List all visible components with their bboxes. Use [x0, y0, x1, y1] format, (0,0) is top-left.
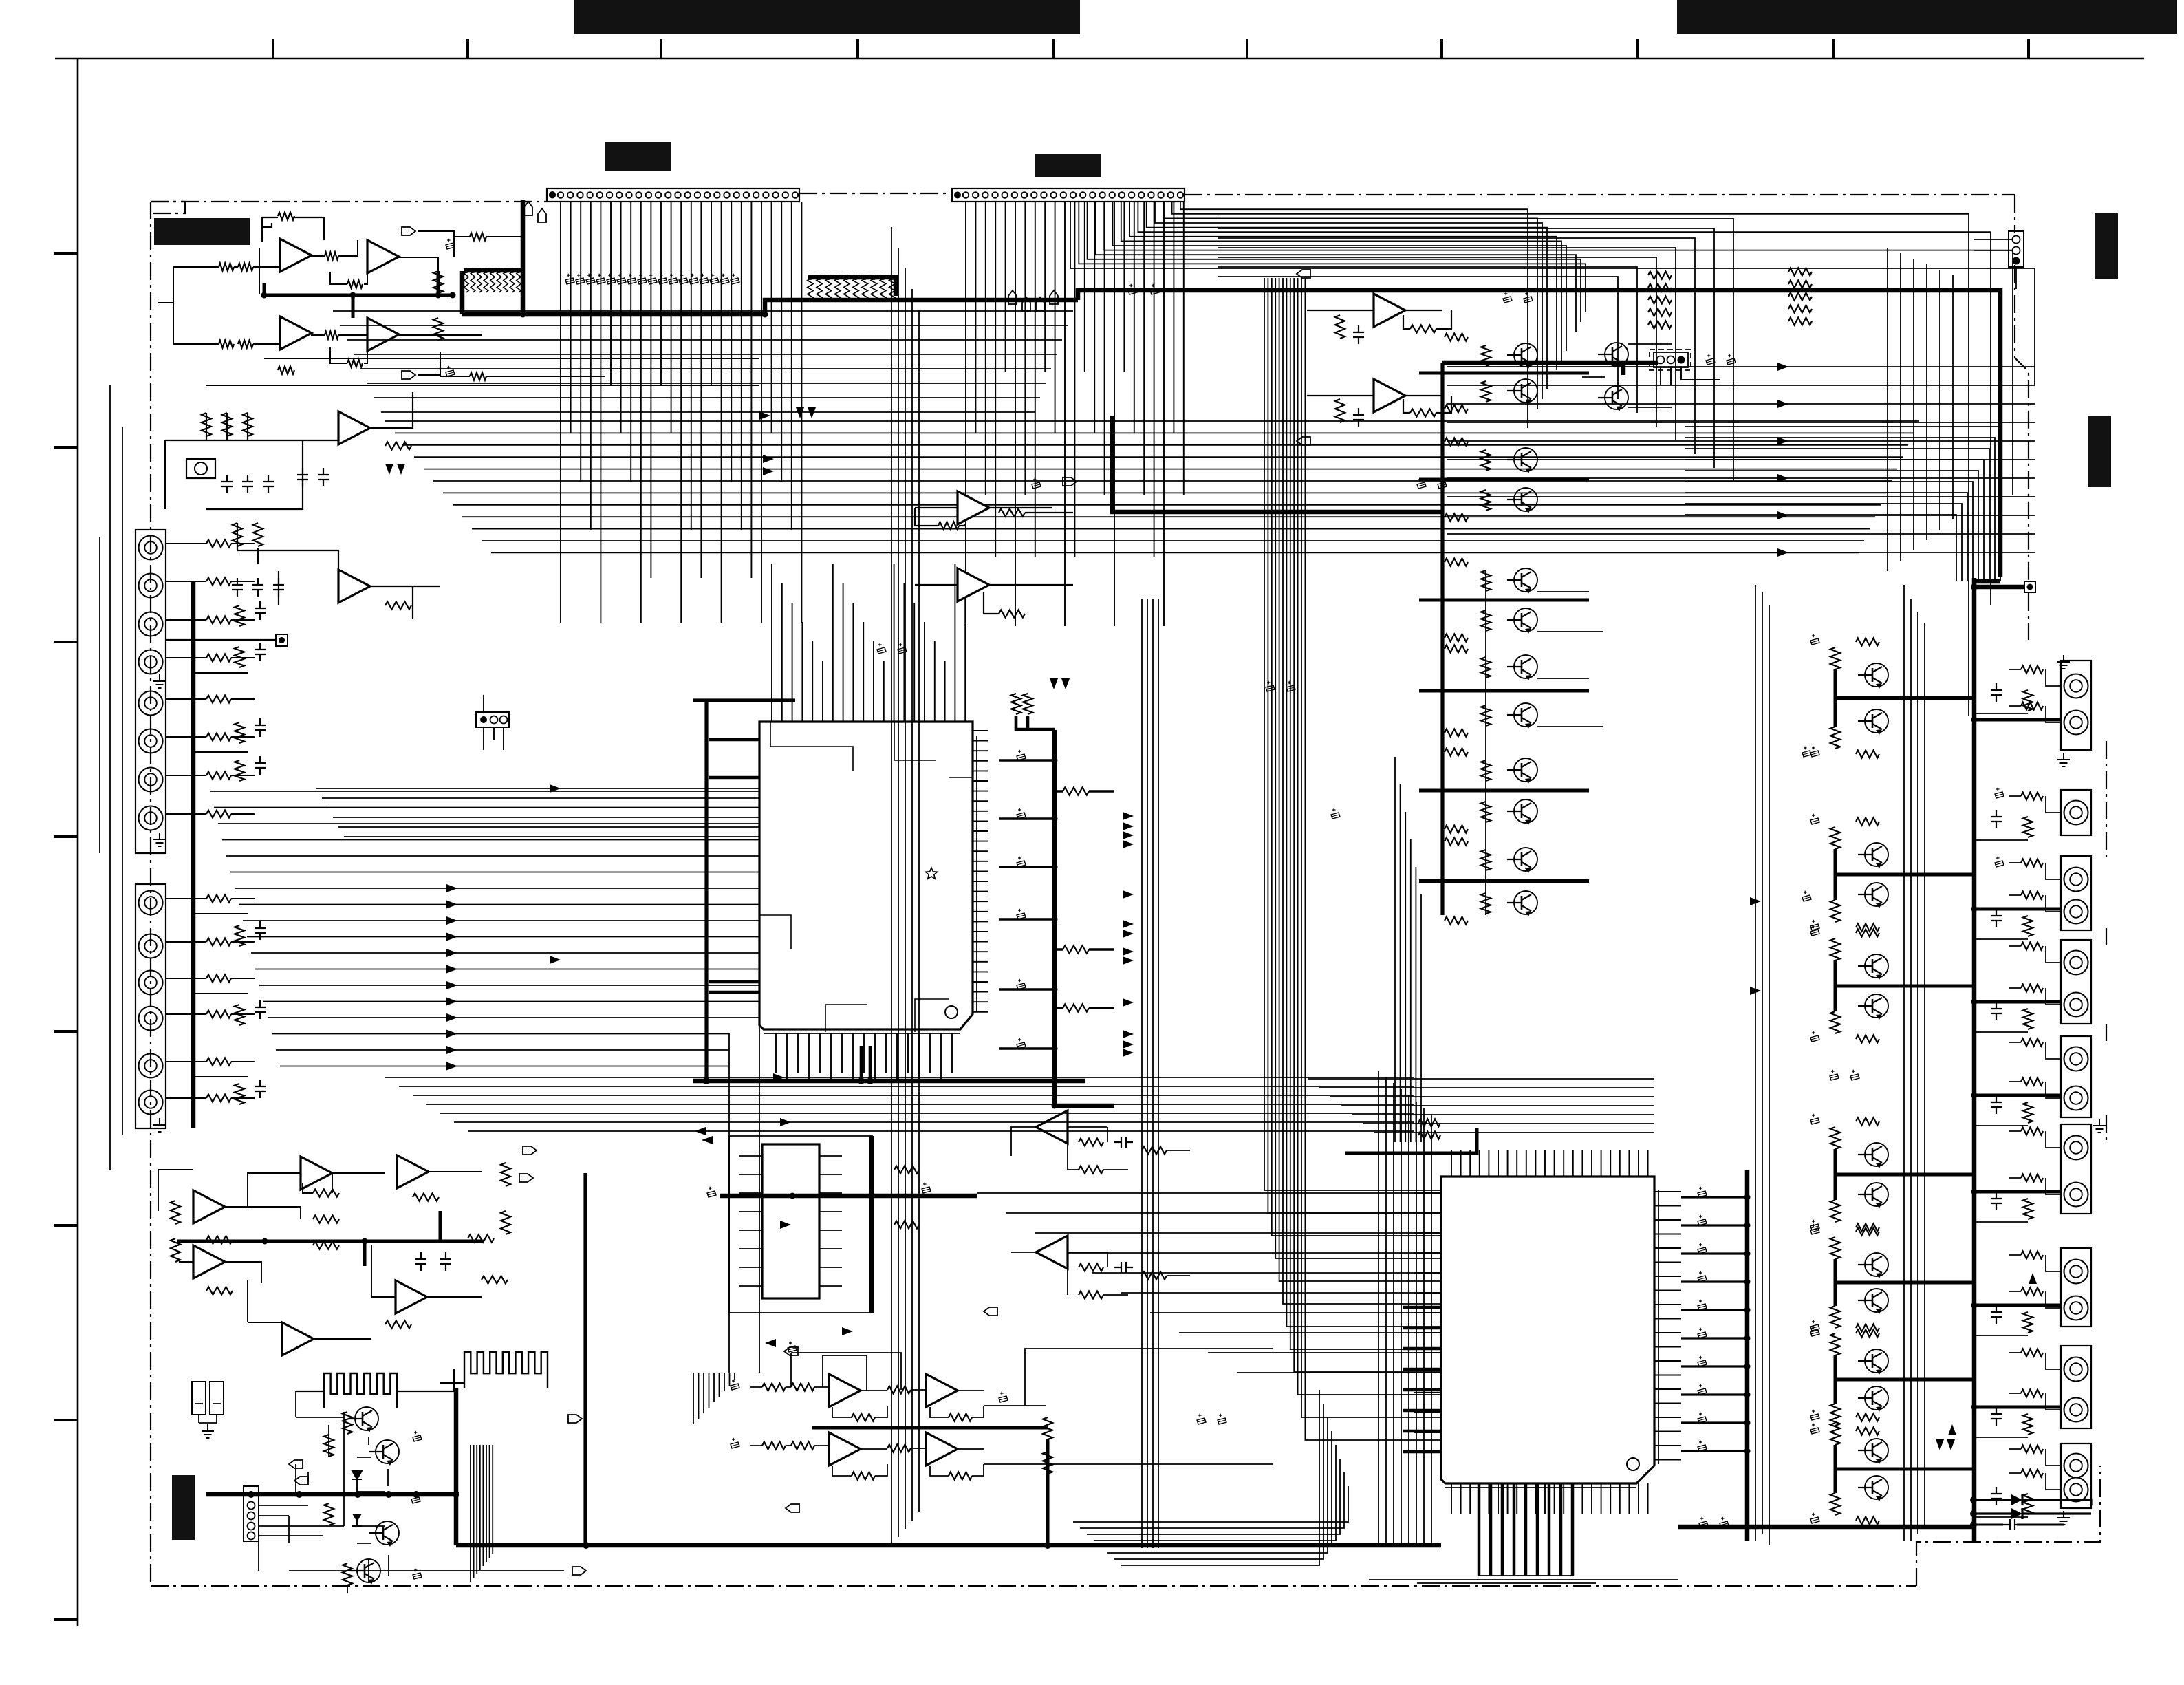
resistor R713 [762, 1442, 786, 1450]
wire bus left of IC2 vertical [1378, 1071, 1431, 1545]
wire bus nest above IC2 [1308, 1079, 1654, 1133]
board outline dash-dot top-right [1185, 194, 2015, 195]
border tick marks left [54, 253, 78, 1620]
resistor R311 [1335, 315, 1345, 339]
wire column K [1486, 571, 1603, 915]
IC U1 internal outline [759, 722, 973, 1032]
wire thick IC1 left rail [693, 700, 795, 1081]
wire bus center tall [1142, 599, 1158, 1548]
board outline dash-dot stub [151, 202, 185, 213]
zener D601 [352, 1471, 362, 1492]
IC U1 DSP [759, 722, 973, 1029]
junction dots bottom right [1970, 1496, 1977, 1503]
op-amp U106 [1374, 294, 1405, 327]
wire CN201 [1974, 239, 2016, 289]
diode D401 [2011, 1494, 2022, 1505]
label redaction right B [2088, 416, 2111, 487]
resistor R621 [324, 1435, 334, 1457]
wire thick top rail [1078, 290, 2000, 581]
wire U105 [915, 513, 1073, 614]
wire bus bottom nest [1073, 1390, 1348, 1565]
resistor R706 [1079, 1291, 1103, 1299]
resistor R114 [470, 373, 486, 380]
wire bus bottom comb [471, 1445, 493, 1582]
capacitor C701 [707, 1191, 716, 1197]
resistor R606 [206, 1287, 233, 1295]
junction dots IC2 rail [1744, 1194, 1751, 1201]
resistor R303 [999, 610, 1025, 618]
resistor R611 [171, 1238, 180, 1262]
wire bus under IC2 [1369, 1576, 1678, 1583]
resistor R701 [894, 1166, 919, 1174]
IC U2 left pins thick [1403, 1307, 1441, 1452]
resistor R705 [1079, 1264, 1103, 1271]
heatsink HS1 [324, 1373, 397, 1408]
wire bus CN101 pins [561, 202, 801, 623]
IC U1 index [945, 1006, 958, 1018]
ground lug panel1 [153, 674, 166, 688]
title block redaction bar [574, 0, 1080, 34]
IC U2 left pins [1414, 1193, 1441, 1452]
op-amp U301c [397, 1155, 429, 1188]
op-amp U104 [958, 491, 989, 524]
resistor R113 [470, 233, 486, 241]
thermal breaker TH1 [192, 1382, 206, 1415]
wire thick right bus [1972, 578, 1977, 1541]
wire thick quad bus [812, 1428, 1048, 1545]
board outline dash-dot top-mid [799, 193, 952, 194]
terminal flags CN102 [1008, 290, 1017, 304]
wire thick U3 feed [720, 1194, 977, 1199]
resistors R331 network [1830, 647, 1840, 669]
terminal block J101 [186, 459, 215, 478]
capacitor C703 [1114, 1137, 1133, 1148]
resistor R121 [385, 442, 411, 450]
wire bus center-right verticals [1755, 585, 1925, 1545]
capacitor bank C301 [1017, 754, 1026, 760]
resistor R122 [385, 602, 411, 610]
connector CN202 [1650, 350, 1691, 370]
wire thick U101 fb [259, 240, 367, 363]
transistor Q601 [355, 1407, 378, 1430]
IC U3 pins [739, 1156, 842, 1286]
wire bus upper right diag [1218, 219, 1733, 482]
heatsink HS2 [464, 1352, 548, 1388]
op-amp U704d [926, 1432, 958, 1466]
wire thick CN101 pin1 drop [521, 200, 526, 314]
IC U2 top pins [1451, 1150, 1648, 1177]
wire thick U101 bus [264, 271, 453, 318]
resistor R312 [1335, 399, 1345, 422]
capacitor C712 [731, 1442, 739, 1448]
op-amp U101d [367, 318, 399, 351]
label redaction block name [154, 218, 250, 245]
resistor R718 [949, 1472, 972, 1480]
flag J [519, 1174, 533, 1182]
capacitor C102 [446, 370, 455, 376]
wire bus bottom drops [693, 1373, 735, 1424]
wire filter out [370, 392, 440, 619]
resistor R719 [887, 1386, 911, 1394]
transistor Q603 [376, 1521, 399, 1545]
transistor Q210 [1605, 386, 1628, 409]
resistor R722 [1043, 1452, 1052, 1474]
RCA jacks J1-J8 [139, 536, 163, 560]
board outline dash-dot right upper [2015, 195, 2029, 640]
test point TP201 [2024, 581, 2035, 592]
connector CN601 [244, 1486, 259, 1541]
resistor R717 [852, 1472, 875, 1480]
capacitor C704 [1114, 1262, 1133, 1273]
border rule left [77, 58, 79, 1626]
resistor R715 [852, 1414, 875, 1421]
resistor R613 [501, 1211, 510, 1234]
wire thick IC2 right rail [1745, 1170, 1750, 1541]
op-amp U301d [193, 1245, 225, 1278]
junction power [453, 1491, 459, 1498]
connector CN101 [547, 189, 799, 202]
wire bus CN102 pins [966, 202, 1184, 626]
IC U1 right pins [973, 731, 988, 1012]
resistors bias R221 [1481, 345, 1491, 366]
wire thick J bus [177, 1211, 484, 1266]
border tick marks top [273, 39, 2029, 58]
wire quad out [984, 1349, 1273, 1464]
capacitor C601 [415, 1252, 426, 1271]
test point TP101 [276, 634, 288, 646]
capacitor bank C501 [1698, 1191, 1707, 1197]
jack panel box 2 [136, 884, 166, 1128]
wire power block [259, 1412, 389, 1593]
board outline dash-dot left [150, 202, 151, 1586]
resistor network right R401 [2021, 666, 2043, 674]
diode D402 [2011, 1508, 2022, 1519]
junction U101 [261, 292, 268, 299]
resistor R103 [219, 341, 234, 348]
resistor R620 [343, 1412, 352, 1434]
capacitor C702 [922, 1187, 931, 1193]
wire U101 fb top [262, 217, 324, 242]
resistor R112 [433, 318, 443, 340]
flag power right [568, 1415, 582, 1423]
op-amp U105 [958, 568, 989, 601]
resistor R708 [1142, 1272, 1167, 1280]
resistor R301 [938, 522, 959, 530]
wire thick rail bottom [1055, 1104, 1114, 1108]
capacitor C121 [297, 468, 308, 486]
resistor R110 [347, 360, 363, 367]
capacitor C612 [413, 1573, 422, 1579]
transistor Q604 [357, 1559, 380, 1582]
resistor R104 [238, 341, 253, 348]
wire bottom run [259, 1536, 564, 1571]
op-amp U703 [1036, 1236, 1068, 1269]
resistor R106 [278, 367, 294, 374]
wire filter [165, 413, 338, 605]
op-amp U704a [829, 1374, 861, 1407]
wire bus into IC1 left [316, 788, 759, 837]
resistor R623 [324, 1503, 334, 1525]
wire thick left ground bus [191, 581, 196, 1128]
capacitor C101 [446, 243, 455, 249]
resistor R622 [343, 1563, 352, 1585]
IC U1 left pins thick [709, 740, 759, 992]
resistor R109 [347, 281, 363, 288]
wire bus audio band [333, 311, 1073, 412]
capacitor C610 [413, 1435, 422, 1441]
resistors input R201-R214 [206, 540, 231, 548]
resistor R107 [325, 253, 338, 260]
resistor R108 [325, 332, 338, 339]
jack panel box 1 [136, 530, 166, 853]
arrows mid-bottom [773, 1073, 784, 1082]
wire U702 [1011, 1127, 1190, 1170]
wire bus IC2 to left [977, 1193, 1414, 1373]
wire thick IC2 top feed [1345, 1128, 1477, 1153]
wire U107 [1307, 396, 1451, 413]
transistor Q602 [376, 1440, 399, 1463]
IC U2 index [1627, 1458, 1639, 1470]
wire TP101 [165, 640, 276, 661]
junction dots bus IC1 [858, 1077, 865, 1084]
wire bus right fan [1685, 427, 2000, 581]
label redaction right A [2095, 213, 2118, 279]
resistor R711 [762, 1384, 786, 1391]
wire bus right verticals [1888, 248, 1953, 571]
resistor R102 [238, 264, 253, 271]
capacitor C122 [318, 468, 329, 486]
IC U1 shadow [764, 736, 977, 1033]
wire quad fb [791, 1353, 901, 1391]
IC U2 bottom pins [1451, 1483, 1648, 1514]
flags CN601 [289, 1460, 303, 1468]
resistor R302 [999, 509, 1025, 517]
bus arrows mid [763, 455, 774, 463]
wire bus mid-bottom [385, 1077, 1414, 1131]
op-amp U301f [282, 1322, 314, 1355]
resistor R313 [1410, 325, 1436, 333]
op-amp U107 [1374, 379, 1405, 412]
junction dots [520, 312, 526, 318]
resistor R101 [219, 264, 234, 271]
op-amp U301b [301, 1157, 332, 1190]
capacitor row C151-C167 [565, 278, 574, 284]
op-amp U704b [926, 1374, 958, 1407]
wire block A out rows [206, 237, 759, 385]
resistor R605 [313, 1242, 339, 1249]
connector CN201 [2009, 231, 2024, 267]
wire bus control mid [385, 421, 1919, 552]
wire IC1 to rail [999, 760, 1114, 1049]
bus arrows IC1 [1123, 812, 1134, 820]
wire Q209 [1582, 344, 1672, 407]
wire thick drop 851 [583, 1173, 587, 1545]
junction [1971, 583, 1978, 590]
resistor R714 [791, 1442, 814, 1450]
wire U101 outputs [399, 231, 482, 375]
resistor network RA101 [464, 272, 468, 292]
wire bus to IC2 left [1264, 278, 1441, 1440]
op-amp U102 [338, 411, 370, 444]
wire thick bottom right rail [1678, 1525, 1974, 1530]
IC U1 bottom pins [776, 1033, 952, 1081]
flag out [402, 227, 415, 235]
op-amp U101b [367, 240, 399, 273]
op-amp U301a [193, 1190, 225, 1223]
junction U3 [868, 1192, 875, 1199]
capacitor C402 [2003, 1519, 2022, 1530]
IC U2 shadow [1445, 1190, 1658, 1488]
wire U106 [1307, 310, 1451, 329]
wire IC2 right [1681, 1197, 1747, 1451]
signal arrows [446, 884, 457, 892]
wire quad [750, 1387, 984, 1476]
capacitor C611 [411, 1497, 420, 1503]
op-amp U704c [829, 1432, 861, 1466]
resistor R612 [501, 1163, 510, 1186]
RC network left 2 [233, 523, 242, 546]
arrows top [1050, 678, 1058, 689]
board outline dash-dot bottom [151, 1585, 1916, 1587]
arrows right [1750, 897, 1761, 905]
wire left risers [100, 385, 122, 1170]
terminal flags CN101 [524, 202, 532, 215]
resistor R603 [413, 1194, 439, 1201]
arrow mid [842, 1327, 853, 1335]
bus arrows right band [1777, 363, 1788, 371]
decoupling capacitors [1503, 297, 1512, 303]
capacitor C602 [440, 1252, 451, 1271]
capacitor C311 [1353, 325, 1364, 344]
resistor R720 [887, 1445, 911, 1452]
wire CN103 [484, 695, 504, 750]
resistor R802 [1418, 1132, 1440, 1139]
op-amp U101c [280, 316, 312, 350]
junction dots right bus [1971, 717, 1978, 723]
wire bus right band [1447, 367, 2035, 552]
wire thick center rail [1112, 416, 1442, 512]
wire thick emitter bus [1419, 373, 1589, 881]
capacitor C713 [999, 1396, 1008, 1402]
junction J [262, 1238, 268, 1245]
junction dots rail [1052, 758, 1058, 764]
wire bus to IC2 top [1395, 757, 1421, 1142]
RCA jack panel right J21-J36 [2061, 661, 2091, 750]
resistor R716 [949, 1414, 972, 1421]
wire thick stubs IC1 bottom [861, 1046, 870, 1081]
resistor R601 [206, 1236, 233, 1244]
wire U104 [915, 508, 1052, 526]
wire thick right drop [1440, 363, 1444, 915]
transistor Q209 [1605, 343, 1628, 366]
IC U2 [1441, 1177, 1654, 1483]
RC network left [202, 413, 211, 436]
resistor R111 [433, 271, 443, 293]
resistor R314 [1410, 409, 1436, 417]
op-amp U702 [1036, 1110, 1068, 1144]
transistors Q201-Q208 [1514, 343, 1537, 367]
ground lugs right [2057, 655, 2070, 669]
wire U101 input top [158, 267, 280, 344]
wire thick rail VREF [1052, 730, 1057, 1106]
IC U3 [762, 1144, 819, 1298]
wire CN202 [1661, 367, 1720, 385]
flag U703 [984, 1307, 997, 1316]
zener D602 [352, 1514, 362, 1526]
capacitor C711 [731, 1384, 739, 1390]
wire cluster J [158, 1170, 482, 1339]
op-amp U301e [396, 1280, 427, 1313]
IC U2 bottom pins thick [1479, 1483, 1572, 1576]
resistor R609 [482, 1276, 508, 1284]
resistor R712 [791, 1384, 814, 1391]
resistor R704 [1079, 1166, 1103, 1174]
RCA jacks J9-J14 [139, 891, 163, 915]
board outline dash-dot top-left [151, 201, 547, 202]
resistor R602 [313, 1190, 339, 1197]
flag U106 [1297, 270, 1310, 278]
wire thick cell bus [1835, 669, 1974, 1493]
wire right jack cells [1974, 669, 2061, 1517]
wire bus analog to DSP [210, 791, 759, 1373]
wire HS [296, 1369, 464, 1391]
label redaction DSP [1035, 154, 1101, 177]
resistor pair [1011, 694, 1021, 714]
resistor R801 [1418, 1119, 1440, 1127]
wire thick U3 rail [869, 1136, 874, 1313]
resistor grid R321 [1648, 272, 1672, 279]
wire bus center-left tall [891, 227, 919, 1545]
board outline dash-dot right jack panel [2106, 741, 2107, 1142]
title block redaction bar right [1677, 0, 2177, 34]
wire TP201 [1974, 585, 2024, 590]
RC shunt network [235, 605, 244, 626]
wire bus digital top fan [1070, 202, 2035, 716]
resistor network RA102 [808, 279, 813, 299]
IC U3 outer [729, 1136, 872, 1313]
resistor R604 [313, 1216, 339, 1223]
label redaction PRE AMP [605, 142, 671, 171]
capacitor C312 [1353, 408, 1364, 427]
flag U104 [1063, 477, 1077, 486]
resistor R610 [171, 1201, 180, 1224]
op-amp U103 [338, 570, 370, 603]
capacitor C304 [1032, 482, 1041, 489]
transistors Q301-Q314 [1865, 663, 1888, 687]
wire thick bus AGND [462, 271, 1078, 314]
flag quad [784, 1347, 798, 1355]
wire thick bus under IC1 [693, 1079, 1085, 1084]
wire thick res drop [1016, 716, 1055, 729]
connector CN102 [952, 189, 1185, 202]
resistor R703 [1079, 1139, 1103, 1146]
border rule top [55, 58, 2144, 60]
label redaction power [172, 1475, 195, 1540]
connector CN103 [476, 712, 509, 727]
board outline dash-dot bottom-right step [1916, 1466, 2100, 1586]
resistor R105 [278, 213, 294, 220]
wire U703 [1011, 1252, 1190, 1295]
op-amp U101a [280, 239, 312, 272]
resistor R702 [894, 1221, 919, 1229]
wire thick power bus [206, 1388, 1441, 1545]
ground lug panel2 [153, 1118, 166, 1132]
wire U101 input bottom [173, 343, 280, 345]
IC U1 star mark [925, 868, 937, 879]
resistor R721 [1043, 1417, 1052, 1439]
IC U1 top pins [772, 564, 965, 722]
resistor R707 [1142, 1147, 1167, 1155]
